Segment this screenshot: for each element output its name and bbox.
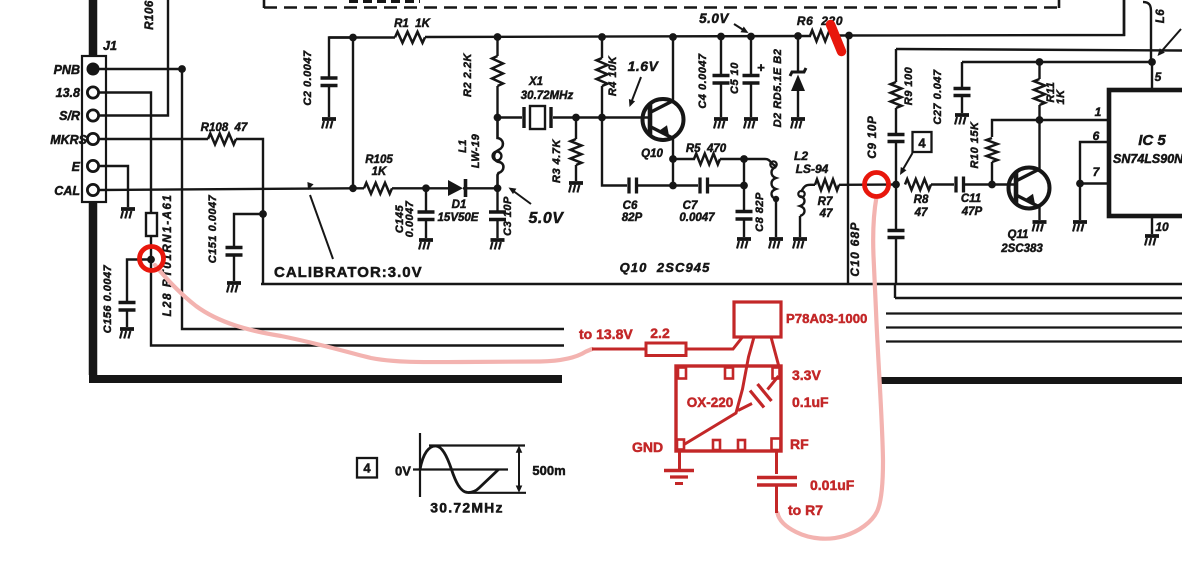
node rail/R2 xyxy=(494,33,502,41)
node emitter/R5/C7 junction xyxy=(669,155,677,163)
svg-text:CALIBRATOR:3.0V: CALIBRATOR:3.0V xyxy=(274,264,423,281)
capacitor C27 0.047 xyxy=(961,62,963,87)
svg-text:4: 4 xyxy=(363,461,371,476)
connector J1 body xyxy=(82,56,106,202)
ground pins 6/7 xyxy=(1073,220,1087,224)
waveform reference 4 box xyxy=(357,458,377,478)
transistor Q11 xyxy=(1009,168,1050,209)
node rail/D2 xyxy=(794,32,802,40)
node CAL/rail-branch junction xyxy=(349,184,357,192)
svg-text:C10 68P: C10 68P xyxy=(848,221,862,276)
svg-text:L1: L1 xyxy=(457,139,469,153)
red regulator P78A03-1000 box xyxy=(734,302,781,337)
svg-text:C7: C7 xyxy=(683,200,698,212)
wire rail-to-CAL vertical x=353 xyxy=(352,38,354,189)
cut-off text fragments above dashed line xyxy=(349,0,420,3)
crystal X1 30.72MHz xyxy=(498,116,523,118)
red OX-220 bottom pin notches xyxy=(677,440,684,450)
pink jumper wire from 0.01uF cap to R7 node xyxy=(778,197,884,539)
svg-text:15V50E: 15V50E xyxy=(438,212,479,224)
node rail/R6 left xyxy=(845,32,853,40)
ground C8 xyxy=(737,237,751,241)
capacitor C4 0.0047 xyxy=(720,37,722,75)
red capacitor 0.01uF xyxy=(757,476,797,479)
node MKRS/C151 junction xyxy=(259,210,267,218)
wire R9 top feed line y=49 xyxy=(896,49,1182,51)
svg-text:1K: 1K xyxy=(372,166,387,178)
svg-text:C3 10P: C3 10P xyxy=(502,196,514,236)
node rail/R4 xyxy=(598,33,606,41)
node C9/C10/R7/R8 junction xyxy=(892,181,900,189)
node R11/pin1/collector junction xyxy=(1036,116,1044,124)
red wire to 13.8V xyxy=(592,348,646,351)
svg-text:47: 47 xyxy=(819,208,833,220)
dashed box right corner xyxy=(1058,0,1061,8)
wire X1 to Q10 base xyxy=(576,116,649,118)
capacitor C3 10P xyxy=(496,188,498,211)
resistor R2 2.2K xyxy=(496,37,498,56)
capacitor C145 0.0047 xyxy=(425,188,427,211)
node y62/pin5 junction xyxy=(1148,58,1156,66)
ground C27 xyxy=(955,113,969,117)
pin S/R of J1 xyxy=(87,110,98,121)
node L1/C3/D1 junction (5.0V test point) xyxy=(494,184,502,192)
wire MKRS pin to R108 xyxy=(98,138,208,140)
svg-text:SN74LS90N: SN74LS90N xyxy=(1113,152,1182,166)
capacitor C7 0.0047 xyxy=(673,184,698,186)
wire E pin to ground xyxy=(98,166,128,207)
svg-text:RF: RF xyxy=(790,436,809,452)
svg-text:R5 470: R5 470 xyxy=(686,143,727,155)
arrow from L6 label to node xyxy=(1160,29,1181,53)
ground pin 10 xyxy=(1145,234,1159,238)
waveform test point 4 box with arrow xyxy=(913,132,932,152)
wire R108 to vertical x=263 down to bottom bus xyxy=(236,139,263,284)
svg-text:C27 0.047: C27 0.047 xyxy=(932,69,944,125)
node base/R10 junction xyxy=(988,181,996,189)
svg-text:5.0V: 5.0V xyxy=(699,11,729,26)
arrow CALIBRATOR to CAL line xyxy=(310,195,333,259)
svg-text:C2 0.0047: C2 0.0047 xyxy=(302,50,314,106)
svg-text:5: 5 xyxy=(1155,70,1162,84)
svg-text:0V: 0V xyxy=(395,464,411,479)
ground L2 primary xyxy=(769,237,783,241)
pin PNB of J1 xyxy=(87,63,100,76)
svg-text:GND: GND xyxy=(632,439,663,455)
ground C3 xyxy=(491,238,505,242)
dashed box left corner xyxy=(263,0,266,8)
wire 5.0V rail xyxy=(329,36,395,38)
svg-text:R106: R106 xyxy=(144,0,156,30)
ground C2 xyxy=(322,117,336,121)
node R5/L2/C8 junction xyxy=(740,155,748,163)
inductor L6 lead from top xyxy=(1143,2,1151,62)
svg-text:D2 RD5.1E B2: D2 RD5.1E B2 xyxy=(772,49,784,128)
capacitor C2 0.0047 branch xyxy=(329,38,353,78)
red earth ground symbol xyxy=(664,469,694,472)
wire Q11 collector up xyxy=(1038,120,1040,169)
red resistor 2.2 xyxy=(646,343,686,356)
wire right thin line y=313 xyxy=(886,312,1182,314)
red capacitor 0.1uF diagonal inside module xyxy=(768,376,779,390)
wire junction to C156 xyxy=(127,260,151,302)
svg-text:R105: R105 xyxy=(365,154,393,166)
svg-text:0.0047: 0.0047 xyxy=(404,200,416,237)
capacitor C5 10 (electrolytic) xyxy=(750,37,752,75)
svg-text:P78A03-1000: P78A03-1000 xyxy=(786,311,867,326)
wire CAL line xyxy=(98,188,364,190)
pin CAL of J1 xyxy=(87,184,98,195)
node 13.8/C156 junction (red-circled) xyxy=(147,256,155,264)
red slash mark across R6 xyxy=(831,25,842,52)
svg-text:R10 15K: R10 15K xyxy=(969,121,981,168)
node base/R4/C6 junction xyxy=(598,114,606,122)
ground D2 xyxy=(791,117,805,121)
svg-text:to 13.8V: to 13.8V xyxy=(579,326,633,342)
wire C6 branch from base node xyxy=(602,118,627,186)
svg-text:LW-19: LW-19 xyxy=(470,133,482,168)
svg-text:47: 47 xyxy=(914,207,928,219)
node rail/C5 xyxy=(747,33,755,41)
svg-text:1K: 1K xyxy=(1055,89,1067,105)
ground C145 xyxy=(419,238,433,242)
resistor R4 10K xyxy=(601,37,603,58)
wire box bottom second line right y=298 xyxy=(895,297,1182,299)
svg-text:PNB: PNB xyxy=(54,63,80,77)
wire S/R pin up to R106 xyxy=(98,0,168,116)
svg-text:L2: L2 xyxy=(794,149,808,163)
capacitor C151 0.0047 xyxy=(226,246,243,250)
wire pin 5 from node y62 xyxy=(1151,62,1153,90)
wire circuit box bottom bus y=284 xyxy=(261,283,1182,285)
node PNB junction xyxy=(178,65,186,73)
ground C4 xyxy=(714,117,728,121)
wire 13.8 pin to vertical xyxy=(98,93,151,214)
capacitor C8 82P xyxy=(743,186,745,211)
node y62/R11 junction xyxy=(1036,58,1044,66)
svg-text:to R7: to R7 xyxy=(788,502,823,518)
wire pin 10 to ground xyxy=(1151,216,1153,234)
waveform 30.72MHz sine trace xyxy=(420,446,499,493)
svg-text:C9 10P: C9 10P xyxy=(867,115,879,158)
resistor R3 4.7K xyxy=(575,118,577,140)
svg-text:C4 0.0047: C4 0.0047 xyxy=(697,53,709,109)
dashed box top edge xyxy=(264,6,1059,9)
wire PNB pin to junction xyxy=(99,68,182,70)
ground C5 xyxy=(744,117,758,121)
svg-text:R1 1K: R1 1K xyxy=(394,18,430,30)
pink jumper wire from 13.8V node to regulator input xyxy=(155,265,592,362)
wire right thin line y=327 xyxy=(886,326,1182,328)
wire pin 6 to pin 7 link xyxy=(1080,142,1109,184)
svg-text:10: 10 xyxy=(1155,220,1169,234)
svg-text:R9 100: R9 100 xyxy=(903,66,915,105)
svg-text:J1: J1 xyxy=(103,39,117,53)
svg-text:+: + xyxy=(757,60,765,75)
wire box step at x=895 xyxy=(894,284,896,298)
svg-text:Q10: Q10 xyxy=(641,148,663,160)
svg-text:3.3V: 3.3V xyxy=(792,367,821,383)
ground R3 xyxy=(569,181,583,185)
svg-text:82P: 82P xyxy=(622,212,643,224)
wire rail R1 to R6 xyxy=(425,36,811,37)
wire pin 7 line xyxy=(1080,182,1109,184)
wire C27 feed line y=62 xyxy=(962,61,1155,63)
svg-text:X1: X1 xyxy=(528,76,543,88)
svg-text:L6: L6 xyxy=(1155,9,1167,24)
svg-text:500m: 500m xyxy=(532,463,565,478)
resistor R11 1K xyxy=(1038,62,1040,79)
red wire regulator ground lead diagonal to GND pin xyxy=(684,337,754,445)
node rail at x=353 xyxy=(349,34,357,42)
red OX-220 oscillator module box xyxy=(676,366,781,451)
red wire RF pin down to capacitor xyxy=(775,451,778,474)
svg-text:2.2: 2.2 xyxy=(650,325,670,341)
wire C11 to Q11 base xyxy=(965,183,1016,185)
svg-text:R7: R7 xyxy=(818,196,833,208)
svg-text:0.01uF: 0.01uF xyxy=(810,477,855,493)
resistor R108 47 xyxy=(208,134,236,145)
wire pin 1 line xyxy=(1040,119,1110,121)
red wire regulator output to OX-220 3.3V pin xyxy=(771,337,779,365)
wire right thin line y=341 xyxy=(886,340,1182,342)
resistor R5 470 xyxy=(673,158,695,160)
wire PNB vertical down to bottom-left box line y=329 xyxy=(182,69,564,329)
wire Q11 emitter to ground xyxy=(1038,207,1040,220)
ground C151 xyxy=(227,281,241,285)
capacitor C156 0.0047 xyxy=(119,301,136,305)
capacitor C6 82P xyxy=(627,178,630,194)
ground Q11 emitter xyxy=(1033,220,1047,224)
node rail/C4 xyxy=(717,33,725,41)
svg-text:D1: D1 xyxy=(452,199,467,211)
thick border bar above J1 xyxy=(89,0,98,57)
ground C156 xyxy=(120,327,134,331)
resistor R1 1K xyxy=(395,32,425,43)
red circle highlight on 13.8V node xyxy=(140,247,164,271)
node rail/Q10 collector xyxy=(669,33,677,41)
svg-text:R2 2.2K: R2 2.2K xyxy=(462,53,474,97)
svg-text:C6: C6 xyxy=(623,200,638,212)
resistor R8 47 xyxy=(905,179,931,190)
wire R105 to C145 node xyxy=(392,187,448,189)
pin 13.8 of J1 xyxy=(87,87,98,98)
wire emitter node down to C6/C7 line xyxy=(672,159,674,186)
svg-text:E: E xyxy=(72,160,81,174)
resistor R105 1K xyxy=(364,183,392,194)
svg-text:Q11: Q11 xyxy=(1008,229,1029,241)
svg-text:C11: C11 xyxy=(961,193,981,205)
ground E xyxy=(121,207,135,211)
svg-text:30.72MHz: 30.72MHz xyxy=(430,500,503,516)
waveform axes xyxy=(419,433,421,497)
svg-text:2SC383: 2SC383 xyxy=(1000,243,1043,255)
inductor L2 LS-94 secondary xyxy=(798,191,804,197)
red circle highlight on R7/C9 node xyxy=(865,173,889,197)
wire junction to C151 xyxy=(234,214,263,246)
inductor L1 LW-19 xyxy=(494,117,503,188)
svg-text:C5 10: C5 10 xyxy=(729,62,741,94)
red wire 2.2 resistor to regulator xyxy=(686,337,743,349)
wire pins 6/7 to ground xyxy=(1079,184,1081,221)
svg-text:13.8: 13.8 xyxy=(56,86,80,100)
svg-text:IC 5: IC 5 xyxy=(1138,132,1166,149)
svg-text:47P: 47P xyxy=(961,206,983,218)
transistor Q10 xyxy=(643,99,684,140)
svg-text:R8: R8 xyxy=(914,194,929,206)
red OX-220 top pin notches xyxy=(678,368,686,379)
svg-text:MKRS: MKRS xyxy=(50,133,87,147)
capacitor C11 47P xyxy=(954,177,957,193)
svg-text:R4 10K: R4 10K xyxy=(607,55,619,96)
capacitor C10 68P xyxy=(895,185,897,230)
svg-text:6: 6 xyxy=(1093,129,1100,143)
svg-text:0.0047: 0.0047 xyxy=(679,212,715,224)
pin MKRS of J1 xyxy=(87,133,98,144)
wire rail R6 to top-right corner xyxy=(835,0,1124,36)
thick border bottom-right horizontal xyxy=(878,377,1182,384)
svg-text:OX-220: OX-220 xyxy=(687,395,734,410)
thick border bottom-left horizontal xyxy=(89,375,562,383)
svg-text:1: 1 xyxy=(1095,105,1102,119)
svg-text:C151 0.0047: C151 0.0047 xyxy=(207,194,219,263)
wire vertical x=848 rail to bottom bus xyxy=(847,36,849,284)
top-right box corner (vertical at rail end) xyxy=(1123,0,1126,36)
pin E of J1 xyxy=(87,160,98,171)
svg-text:30.72MHz: 30.72MHz xyxy=(521,90,574,102)
svg-text:CAL: CAL xyxy=(54,184,80,198)
resistor R7 47 xyxy=(810,184,815,186)
svg-text:5.0V: 5.0V xyxy=(529,210,565,227)
thick border bar below J1 xyxy=(89,202,98,375)
IC U5 SN74LS90 box xyxy=(1109,90,1182,216)
wire 13.8 through fuse down, corner to line y=346 xyxy=(151,236,564,346)
red ground lead of OX-220 xyxy=(678,451,681,469)
node R2/X1/L1 junction xyxy=(494,114,502,122)
waveform amplitude ticks xyxy=(429,444,525,446)
wire Q10 emitter down xyxy=(672,139,674,159)
resistor R6 220 xyxy=(810,30,836,41)
zener diode D2 RD5.1E B2 xyxy=(797,36,799,72)
wire R8 to C11 xyxy=(931,183,954,185)
svg-text:R108 47: R108 47 xyxy=(201,122,248,134)
svg-text:Q10 2SC945: Q10 2SC945 xyxy=(620,260,711,275)
node X1/R3 junction xyxy=(572,114,580,122)
ground L2 secondary xyxy=(793,237,807,241)
svg-text:4: 4 xyxy=(918,136,926,151)
node pin6/7 junction xyxy=(1076,180,1084,188)
svg-text:C156 0.0047: C156 0.0047 xyxy=(102,264,114,333)
node C145 junction xyxy=(422,184,430,192)
waveform 500m measure arrow xyxy=(518,448,520,490)
capacitor C9 10P xyxy=(888,133,905,137)
resistor R9 100 xyxy=(895,49,897,82)
diode D1 15V50E xyxy=(448,180,463,196)
svg-text:LS-94: LS-94 xyxy=(796,162,829,176)
wire R7 to C9/C10 node (red-circled) xyxy=(839,183,896,186)
svg-text:S/R: S/R xyxy=(59,109,80,123)
svg-text:R3 4.7K: R3 4.7K xyxy=(551,139,563,183)
svg-text:1.6V: 1.6V xyxy=(628,58,660,74)
inductor L2 LS-94 primary xyxy=(744,159,776,166)
resistor R10 15K xyxy=(992,120,1040,137)
fuse L28 BT01RN1-A61 xyxy=(146,213,157,236)
svg-text:C8 82P: C8 82P xyxy=(754,192,766,232)
wire Q10 collector to rail xyxy=(672,37,674,100)
svg-text:0.1uF: 0.1uF xyxy=(792,394,829,410)
